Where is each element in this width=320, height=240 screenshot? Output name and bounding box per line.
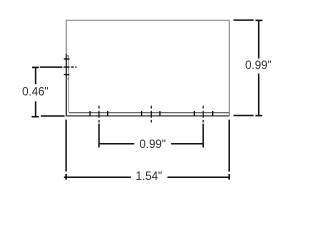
dim 0.99 bottom left extension (98, 124, 100, 148)
bottom pin3 centerline (202, 106, 204, 123)
dim 0.99 right top extension (234, 19, 254, 21)
dim 0.99 right line upper segment (258, 20, 260, 58)
dim 1.54 left tick (65, 174, 67, 180)
side pin upper tick (64, 58, 70, 60)
dim 1.54 right tick (228, 174, 230, 180)
dim 0.99 right bottom tick (255, 115, 262, 117)
body left edge upper (65, 20, 67, 55)
bottom pin2 right tick (159, 111, 161, 116)
dim 0.46 top tick (32, 66, 39, 68)
svg-text:0.46": 0.46" (22, 86, 48, 98)
dim 0.46 bottom tick (32, 116, 39, 118)
svg-text:1.54": 1.54" (136, 171, 162, 183)
body right edge (228, 20, 230, 116)
dim 0.99 right top tick (256, 19, 263, 21)
side pin top edge (66, 55, 69, 57)
bottom pin1 centerline (98, 106, 100, 123)
dim 1.54 right extension (228, 120, 230, 172)
dim 0.99 bottom right extension (202, 124, 204, 148)
side pin lower tick (64, 74, 70, 76)
dim 0.46 vertical line lower (35, 101, 37, 116)
bottom pin1 right tick (107, 111, 109, 116)
dim 0.99 bottom line right segment (171, 143, 203, 145)
dim 1.54 line right segment (167, 176, 230, 178)
bottom pin1 left tick (89, 111, 91, 116)
dim 0.46 vertical line upper (35, 67, 37, 84)
body inner left wall (68, 56, 70, 113)
dim 1.54 left extension (65, 120, 67, 172)
dim 0.46 bottom leader (41, 115, 65, 117)
bottom pin2 centerline (150, 106, 152, 123)
dim 1.54 line left segment (64, 176, 131, 178)
bottom pin3 left tick (193, 111, 195, 116)
bottom pin2 left tick (141, 111, 143, 116)
body top edge (66, 19, 229, 21)
bottom pin3 right tick (212, 111, 214, 116)
dim 0.99 bottom line left segment (99, 143, 134, 145)
svg-text:0.99": 0.99" (139, 139, 165, 151)
dim 0.99 right line lower segment (258, 74, 260, 116)
body bottom edge (66, 115, 229, 117)
side pin bottom edge (66, 78, 69, 80)
side pin centerline dashes (64, 66, 77, 68)
side pin centerline solid leader (40, 66, 63, 68)
dim 0.99 right bottom extension (234, 115, 254, 117)
svg-text:0.99": 0.99" (245, 60, 271, 72)
body left edge lower (65, 54, 67, 116)
lead strip top line (69, 112, 229, 114)
